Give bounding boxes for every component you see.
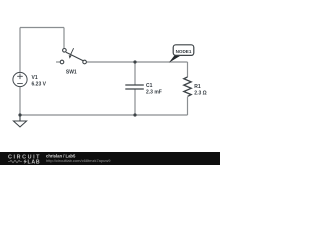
logo lightning bolt	[24, 159, 28, 164]
logo resistor squiggle	[8, 160, 22, 162]
wire R1 top lead	[187, 62, 189, 77]
ground	[13, 115, 26, 127]
svg-text:6.23 V: 6.23 V	[32, 82, 47, 88]
capacitor C1	[125, 85, 144, 89]
wire switch top lead	[63, 28, 65, 49]
svg-text:C1: C1	[146, 83, 153, 89]
wire C1 top lead	[134, 62, 136, 85]
svg-text:2.3 mF: 2.3 mF	[146, 90, 162, 96]
node junction C1 top	[133, 60, 136, 63]
voltage source V1	[13, 72, 27, 86]
wire R1 bottom lead	[187, 97, 189, 115]
node junction ground	[18, 113, 21, 116]
svg-text:LAB: LAB	[28, 160, 41, 166]
wire middle horizontal	[87, 61, 188, 63]
svg-text:R1: R1	[194, 84, 201, 90]
switch arrow head	[69, 55, 72, 59]
svg-text:SW1: SW1	[66, 70, 77, 76]
wire bottom horizontal	[20, 114, 188, 116]
svg-text:V1: V1	[32, 75, 38, 81]
resistor R1	[184, 77, 191, 96]
footer bar	[0, 152, 220, 165]
wire switch left stub	[56, 61, 60, 63]
node junction C1 bottom	[133, 113, 136, 116]
svg-text:2.3 Ω: 2.3 Ω	[194, 90, 206, 96]
svg-text:http://circuitlab.com/c68tmzk7: http://circuitlab.com/c68tmzk7apuw9	[46, 158, 111, 163]
wire C1 bottom lead	[134, 89, 136, 115]
flag NODE1 pointer	[169, 56, 181, 63]
wire left vertical upper	[19, 28, 21, 74]
flag NODE1 box	[173, 45, 194, 56]
wire left vertical lower	[19, 87, 21, 121]
switch SW1	[60, 48, 86, 64]
svg-text:NODE1: NODE1	[176, 49, 192, 54]
wire top horizontal	[20, 27, 64, 29]
